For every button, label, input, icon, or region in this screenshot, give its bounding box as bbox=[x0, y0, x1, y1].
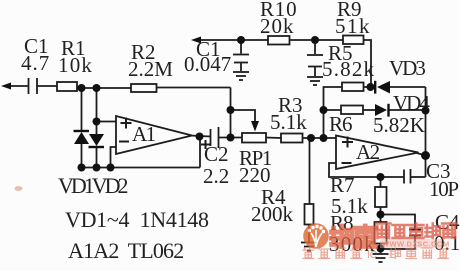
wire bbox=[290, 39, 344, 41]
watermark www.dzsc.com bbox=[380, 239, 442, 248]
wire bbox=[303, 137, 337, 139]
wire C3 row bbox=[411, 176, 426, 178]
node dot R8 bottom bbox=[377, 245, 385, 253]
wire R5 left bbox=[324, 87, 343, 138]
node dot cap2 bbox=[311, 36, 319, 44]
op-amp A1 bbox=[116, 116, 192, 154]
wire bbox=[308, 225, 310, 243]
wire VD4 row bbox=[388, 109, 426, 111]
A2 minus bbox=[342, 162, 352, 164]
node dot VD4 right bbox=[422, 107, 430, 115]
input wire bbox=[9, 85, 28, 87]
capacitor to ground at R9 node bbox=[314, 40, 316, 54]
wire bbox=[219, 137, 243, 139]
wire to RP1 wiper bbox=[231, 110, 256, 122]
node dot R6 bbox=[320, 106, 328, 114]
resistor R9 bbox=[343, 36, 364, 45]
diode VD1 bbox=[74, 132, 89, 144]
wire VD1 branch bbox=[81, 88, 83, 131]
watermark 维库 big chars bbox=[332, 226, 376, 247]
RP1 wiper arrowhead bbox=[251, 121, 259, 132]
wire A1 +input bbox=[97, 121, 117, 123]
wire VD2 bottom bbox=[96, 147, 98, 168]
resistor R6 bbox=[341, 106, 363, 115]
node dot VD3 bbox=[367, 83, 375, 91]
node dot R1b bbox=[93, 84, 101, 92]
stray red mark bottom left bbox=[15, 186, 23, 191]
potentiometer RP1 bbox=[242, 133, 266, 143]
node dot cap1 bbox=[237, 36, 245, 44]
diode VD3 bbox=[377, 81, 390, 94]
wire VD1 bottom bbox=[81, 144, 83, 168]
wire A1 -input bbox=[111, 147, 117, 168]
resistor R4 bbox=[305, 204, 314, 225]
node dot A1 +in bbox=[93, 118, 101, 126]
wire bbox=[380, 244, 382, 254]
wire bbox=[77, 87, 131, 89]
diode VD2 bbox=[89, 134, 104, 146]
node dot R2 corner bbox=[227, 106, 235, 114]
node dot A2 + bbox=[320, 134, 328, 142]
wire bbox=[230, 88, 232, 138]
diode VD4 bbox=[375, 104, 387, 116]
node dot R1a bbox=[78, 84, 86, 92]
wire bottom bus bbox=[82, 167, 201, 169]
A2 plus bbox=[342, 141, 353, 143]
wire A2 output stub bbox=[417, 153, 427, 156]
capacitor C1 (input 4.7) bbox=[28, 78, 30, 94]
wire R7 top bbox=[380, 177, 382, 187]
wire bbox=[266, 137, 281, 140]
input arrowhead bbox=[1, 83, 11, 90]
node dot A2 out bbox=[421, 151, 430, 160]
capacitor C1 0.047 to ground bbox=[240, 40, 242, 54]
C2 plus polarity bbox=[201, 144, 210, 146]
top arrow wire bbox=[199, 39, 241, 41]
A1 minus bbox=[119, 141, 129, 143]
watermark bottom row 全球最大IC采购网络 bbox=[303, 248, 449, 259]
watermark logo circle bbox=[303, 223, 329, 249]
wire R9 to VD3 node bbox=[364, 40, 372, 87]
resistor R10 bbox=[268, 36, 290, 45]
wire bbox=[241, 39, 268, 41]
node dot A1 out bbox=[196, 133, 204, 141]
capacitor C3 bbox=[403, 170, 405, 184]
wire VD2 branch bbox=[96, 88, 98, 134]
ground R8 bbox=[373, 253, 389, 255]
resistor R8 bbox=[375, 222, 387, 244]
resistor R3 bbox=[281, 134, 303, 143]
A1 plus bbox=[121, 122, 132, 124]
wire VD3 row bbox=[390, 86, 426, 88]
text labels bbox=[24, 36, 49, 57]
wire R5 right bbox=[364, 86, 376, 88]
resistor R2 bbox=[131, 84, 157, 92]
wire bbox=[37, 85, 57, 87]
ground bbox=[307, 76, 323, 78]
op-amp A2 bbox=[336, 136, 419, 170]
wire R4 branch bbox=[309, 138, 311, 204]
node dot R7/R8 bbox=[377, 211, 385, 219]
node dot fb bbox=[377, 173, 385, 181]
wire A1 feedback bbox=[199, 137, 201, 168]
capacitor C2 bbox=[210, 129, 212, 146]
resistor R5 bbox=[342, 83, 364, 92]
top arrowhead bbox=[191, 37, 201, 44]
wire bbox=[157, 87, 231, 89]
capacitor C4 loop bbox=[381, 215, 416, 230]
node dot C2/RP1 bbox=[227, 134, 235, 142]
ground bbox=[233, 71, 249, 73]
node dot R3 bbox=[307, 134, 315, 142]
ground R4 bbox=[301, 242, 317, 244]
resistor R1 bbox=[57, 82, 77, 91]
wire A2 -input feedback bbox=[329, 163, 404, 177]
wire A1 output bbox=[190, 136, 211, 137]
watermark 电子市场网 chars bbox=[376, 224, 457, 239]
wire R6 right bbox=[363, 109, 375, 111]
node dots bottom bus bbox=[78, 164, 86, 172]
resistor R7 bbox=[375, 187, 387, 207]
wire R6 left bbox=[324, 109, 342, 111]
wire right bus bbox=[425, 87, 427, 177]
wire bbox=[380, 207, 382, 222]
